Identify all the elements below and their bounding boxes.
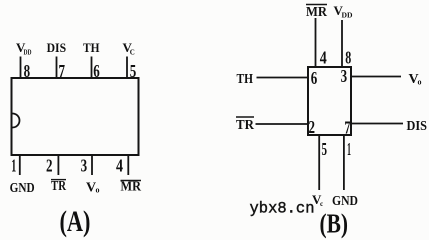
pin 3 lead (A bottom) [91, 154, 93, 175]
svg-text:TH: TH [237, 72, 254, 87]
svg-text:GND: GND [332, 194, 358, 209]
svg-text:1: 1 [347, 139, 351, 159]
svg-text:C: C [130, 49, 135, 57]
svg-text:MR: MR [306, 5, 328, 20]
svg-text:o: o [96, 186, 100, 195]
pin 5 lead (A top) [126, 57, 128, 80]
svg-text:DIS: DIS [47, 40, 67, 55]
pin 7 lead (A top) [56, 57, 58, 80]
pin 2 lead (A bottom) [57, 154, 59, 175]
svg-text:DD: DD [24, 49, 32, 57]
svg-text:DIS: DIS [407, 119, 428, 134]
svg-text:(B): (B) [320, 209, 349, 239]
svg-text:o: o [418, 78, 422, 87]
svg-text:4: 4 [116, 156, 123, 176]
svg-text:TR: TR [51, 179, 67, 194]
svg-text:GND: GND [10, 181, 35, 196]
svg-text:5: 5 [322, 139, 328, 159]
pin 7 lead (B right) [351, 123, 403, 125]
svg-text:2: 2 [46, 156, 53, 176]
pin 1 lead (B bottom) [343, 135, 345, 190]
svg-text:7: 7 [344, 118, 350, 138]
svg-text:8: 8 [24, 61, 31, 81]
svg-text:5: 5 [130, 61, 137, 81]
svg-text:3: 3 [81, 156, 88, 176]
pin 3 lead (B right) [351, 76, 401, 78]
pin 1 lead (A bottom) [19, 154, 21, 175]
svg-text:ybx8.cn: ybx8.cn [250, 200, 315, 218]
svg-text:2: 2 [309, 117, 316, 137]
svg-text:MR: MR [121, 180, 142, 195]
pin 4 lead (A bottom) [127, 154, 129, 175]
pin 4 lead (B top) [315, 18, 317, 68]
svg-text:4: 4 [320, 48, 327, 68]
svg-text:(A): (A) [60, 205, 91, 238]
svg-text:8: 8 [345, 48, 351, 68]
pin 6 lead (A top) [91, 57, 93, 80]
svg-text:6: 6 [311, 68, 318, 88]
svg-text:7: 7 [59, 61, 66, 81]
IC U1 body (functional view B) [308, 67, 351, 135]
svg-text:TH: TH [83, 40, 100, 55]
IC U1 index notch [13, 114, 20, 128]
svg-text:DD: DD [342, 12, 353, 20]
svg-text:1: 1 [11, 156, 16, 176]
pin 5 lead (B bottom) [318, 135, 320, 190]
IC U1 body (DIP-8 package outline, view A) [12, 78, 139, 155]
pin 6 lead (B left) [257, 77, 309, 79]
pin 2 lead (B left) [256, 123, 309, 125]
pin 8 lead (A top) [20, 57, 22, 80]
svg-text:c: c [320, 200, 323, 208]
svg-text:3: 3 [341, 66, 348, 86]
svg-text:6: 6 [93, 61, 100, 81]
svg-text:TR: TR [236, 118, 255, 133]
pin 8 lead (B top) [341, 20, 343, 68]
